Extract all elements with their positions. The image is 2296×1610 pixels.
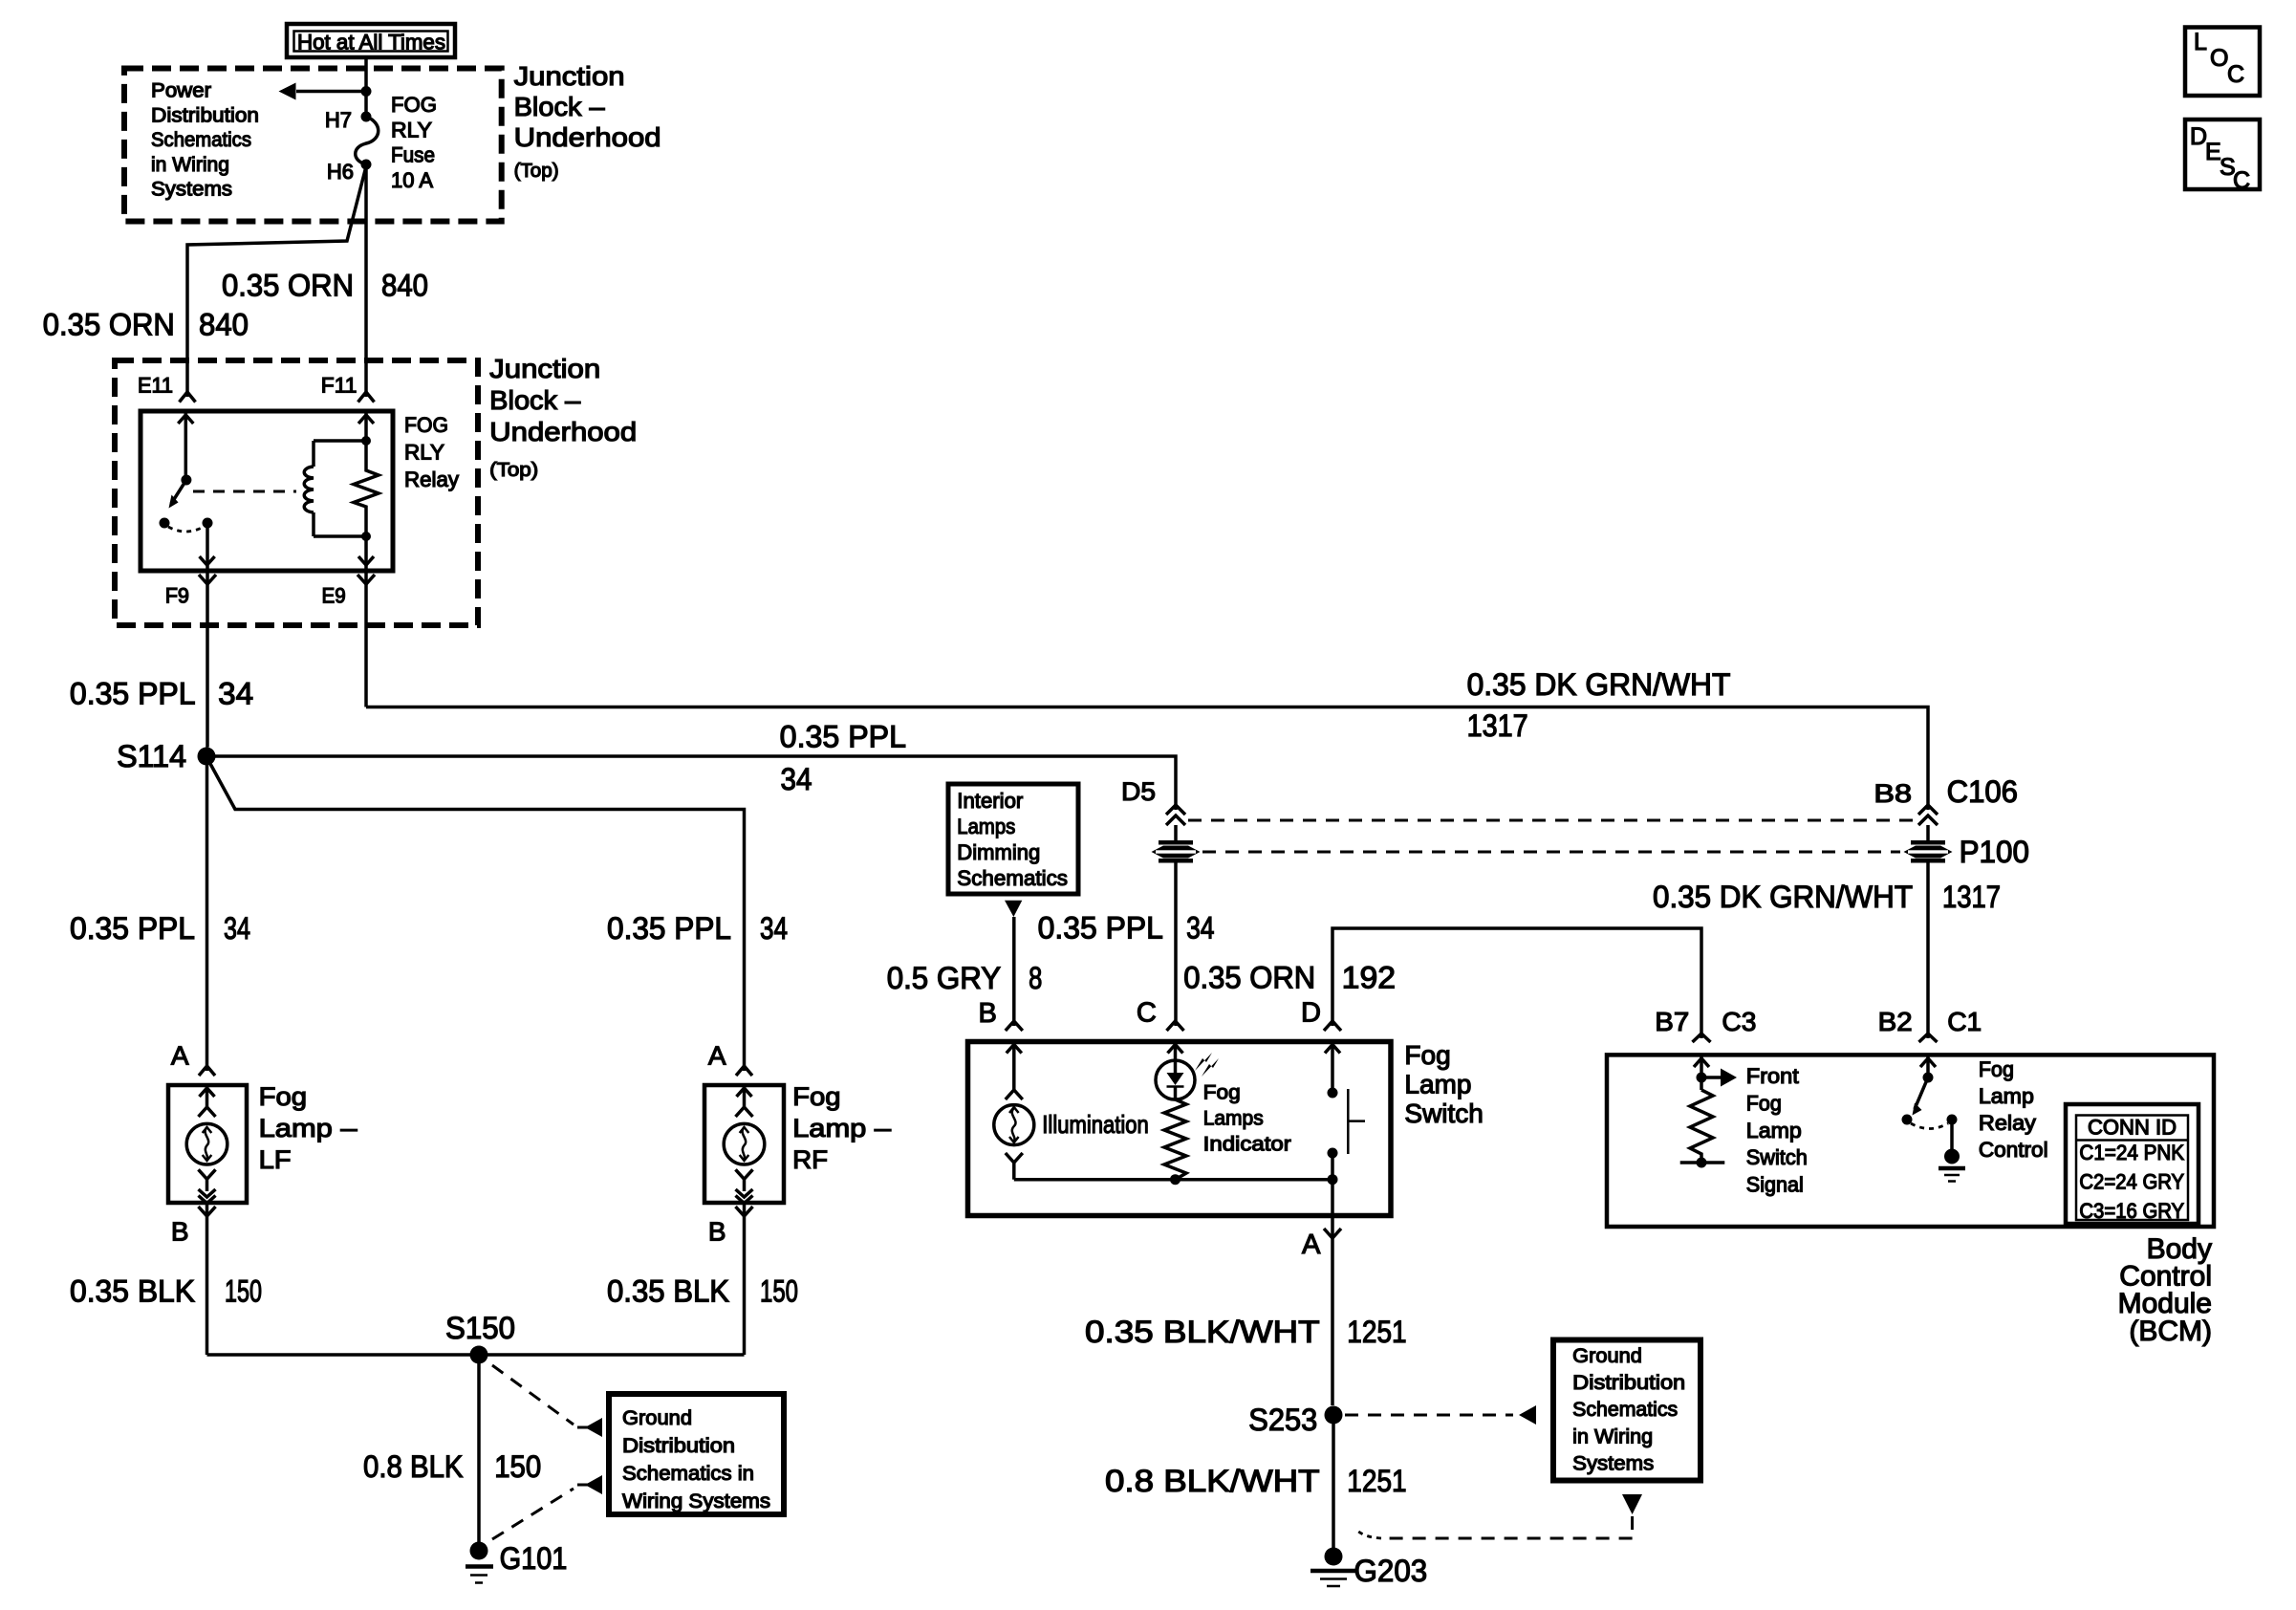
- svg-text:Lamp: Lamp: [1404, 1070, 1471, 1099]
- svg-text:0.35 PPL: 0.35 PPL: [70, 911, 195, 946]
- svg-text:S150: S150: [445, 1311, 515, 1345]
- svg-text:C3: C3: [1722, 1007, 1756, 1036]
- svg-text:Schematics: Schematics: [1572, 1399, 1678, 1421]
- svg-text:1251: 1251: [1347, 1464, 1406, 1498]
- svg-text:P100: P100: [1960, 835, 2029, 869]
- svg-text:0.35 ORN: 0.35 ORN: [222, 269, 354, 303]
- svg-text:Lamp –: Lamp –: [259, 1114, 357, 1142]
- svg-text:Lamps: Lamps: [1203, 1108, 1264, 1130]
- svg-text:Block –: Block –: [514, 92, 605, 121]
- svg-text:Fog: Fog: [1404, 1040, 1450, 1070]
- svg-text:B: B: [708, 1217, 726, 1247]
- svg-text:150: 150: [494, 1449, 541, 1484]
- svg-text:0.35 DK GRN/WHT: 0.35 DK GRN/WHT: [1653, 880, 1913, 914]
- svg-text:in Wiring: in Wiring: [1572, 1425, 1653, 1447]
- svg-text:Front: Front: [1746, 1064, 1799, 1088]
- svg-text:34: 34: [1186, 911, 1214, 946]
- svg-text:Signal: Signal: [1746, 1173, 1804, 1197]
- svg-text:Interior: Interior: [957, 789, 1023, 813]
- svg-text:(Top): (Top): [489, 460, 538, 481]
- svg-text:0.35 PPL: 0.35 PPL: [607, 911, 731, 946]
- svg-text:CONN ID: CONN ID: [2088, 1116, 2177, 1140]
- svg-text:A: A: [708, 1041, 726, 1071]
- svg-text:Indicator: Indicator: [1203, 1134, 1291, 1156]
- svg-text:Wiring Systems: Wiring Systems: [622, 1490, 770, 1512]
- svg-text:RLY: RLY: [391, 118, 432, 141]
- svg-text:0.8 BLK/WHT: 0.8 BLK/WHT: [1105, 1464, 1320, 1498]
- svg-text:C1: C1: [1947, 1007, 1982, 1036]
- svg-text:(BCM): (BCM): [2129, 1316, 2212, 1347]
- svg-text:Lamp –: Lamp –: [792, 1114, 891, 1142]
- svg-text:0.35 BLK: 0.35 BLK: [607, 1274, 729, 1309]
- svg-text:B7: B7: [1655, 1007, 1689, 1036]
- svg-text:8: 8: [1029, 961, 1042, 995]
- svg-text:RLY: RLY: [404, 441, 444, 465]
- svg-text:Fuse: Fuse: [391, 143, 435, 167]
- svg-text:C: C: [2227, 61, 2244, 88]
- svg-text:0.35 PPL: 0.35 PPL: [1038, 911, 1163, 946]
- svg-text:Block –: Block –: [489, 385, 580, 415]
- svg-text:FOG: FOG: [404, 413, 448, 437]
- svg-text:S253: S253: [1248, 1403, 1317, 1437]
- svg-text:150: 150: [225, 1274, 262, 1309]
- svg-text:Illumination: Illumination: [1042, 1110, 1149, 1139]
- svg-text:Lamp: Lamp: [1979, 1084, 2034, 1108]
- svg-text:Relay: Relay: [404, 468, 459, 491]
- svg-text:C106: C106: [1947, 774, 2018, 809]
- svg-text:C2=24 GRY: C2=24 GRY: [2079, 1170, 2184, 1194]
- svg-text:Schematics in: Schematics in: [622, 1463, 754, 1485]
- svg-text:B8: B8: [1874, 779, 1912, 808]
- svg-text:150: 150: [760, 1274, 798, 1309]
- svg-text:34: 34: [760, 911, 788, 946]
- svg-text:Lamp: Lamp: [1746, 1119, 1802, 1142]
- svg-text:34: 34: [218, 676, 253, 710]
- svg-text:0.35 ORN: 0.35 ORN: [43, 308, 175, 342]
- svg-text:840: 840: [199, 308, 249, 342]
- svg-text:FOG: FOG: [391, 93, 437, 117]
- svg-text:Fog: Fog: [1746, 1091, 1782, 1115]
- svg-text:Systems: Systems: [1572, 1452, 1654, 1474]
- svg-text:F9: F9: [165, 584, 189, 608]
- svg-text:B: B: [171, 1217, 189, 1247]
- svg-text:Underhood: Underhood: [514, 122, 661, 152]
- svg-text:0.35 PPL: 0.35 PPL: [780, 720, 906, 754]
- svg-text:E11: E11: [138, 374, 173, 398]
- svg-text:in Wiring: in Wiring: [151, 154, 229, 176]
- svg-text:H6: H6: [327, 160, 354, 184]
- svg-text:Fog: Fog: [1979, 1057, 2014, 1081]
- svg-text:G203: G203: [1354, 1554, 1428, 1588]
- svg-text:Fog: Fog: [259, 1082, 308, 1111]
- svg-text:C: C: [2233, 167, 2250, 194]
- svg-text:F11: F11: [321, 374, 357, 398]
- svg-text:Hot at All Times: Hot at All Times: [297, 31, 445, 54]
- svg-text:Junction: Junction: [489, 354, 600, 383]
- svg-text:0.35 ORN: 0.35 ORN: [1183, 961, 1315, 995]
- svg-text:1251: 1251: [1347, 1315, 1406, 1349]
- svg-text:Distribution: Distribution: [1572, 1372, 1685, 1394]
- svg-text:840: 840: [381, 269, 428, 303]
- svg-text:1317: 1317: [1467, 708, 1528, 743]
- svg-text:A: A: [171, 1041, 189, 1071]
- svg-text:L: L: [2194, 29, 2207, 55]
- svg-text:Fog: Fog: [792, 1082, 841, 1111]
- svg-text:0.5 GRY: 0.5 GRY: [887, 961, 1001, 995]
- svg-text:Junction: Junction: [514, 61, 625, 91]
- svg-text:0.35 BLK: 0.35 BLK: [70, 1274, 195, 1309]
- svg-text:Relay: Relay: [1979, 1111, 2036, 1135]
- svg-text:Distribution: Distribution: [622, 1435, 735, 1457]
- svg-text:Control: Control: [1979, 1138, 2048, 1162]
- svg-text:C: C: [1137, 998, 1157, 1029]
- svg-text:Fog: Fog: [1203, 1082, 1241, 1104]
- svg-text:C1=24 PNK: C1=24 PNK: [2079, 1141, 2184, 1164]
- svg-text:0.35 BLK/WHT: 0.35 BLK/WHT: [1085, 1315, 1320, 1349]
- svg-text:(Top): (Top): [514, 161, 559, 182]
- svg-text:Lamps: Lamps: [957, 815, 1015, 838]
- svg-text:Schematics: Schematics: [957, 866, 1068, 890]
- svg-text:O: O: [2210, 45, 2228, 72]
- svg-text:E9: E9: [322, 584, 346, 608]
- svg-text:0.35 PPL: 0.35 PPL: [70, 676, 196, 710]
- svg-text:RF: RF: [792, 1145, 828, 1174]
- svg-text:A: A: [1302, 1229, 1321, 1260]
- svg-text:S114: S114: [117, 739, 186, 773]
- svg-text:Systems: Systems: [151, 179, 232, 201]
- svg-text:D5: D5: [1121, 777, 1156, 806]
- svg-text:Schematics: Schematics: [151, 129, 251, 151]
- svg-text:B2: B2: [1878, 1007, 1913, 1036]
- svg-text:Switch: Switch: [1746, 1145, 1808, 1169]
- svg-text:Dimming: Dimming: [957, 840, 1040, 864]
- svg-text:1317: 1317: [1942, 880, 2001, 914]
- svg-text:34: 34: [781, 762, 812, 796]
- svg-text:D: D: [1301, 998, 1321, 1029]
- svg-text:Ground: Ground: [622, 1407, 692, 1429]
- svg-text:G101: G101: [500, 1541, 568, 1576]
- svg-text:Ground: Ground: [1572, 1345, 1642, 1367]
- svg-text:0.35 DK GRN/WHT: 0.35 DK GRN/WHT: [1467, 667, 1731, 702]
- svg-text:Distribution: Distribution: [151, 104, 259, 126]
- svg-text:C3=16 GRY: C3=16 GRY: [2079, 1199, 2184, 1223]
- svg-text:Switch: Switch: [1404, 1099, 1483, 1128]
- svg-text:LF: LF: [259, 1145, 292, 1174]
- svg-text:Underhood: Underhood: [489, 417, 637, 446]
- svg-text:192: 192: [1342, 961, 1396, 995]
- svg-text:Power: Power: [151, 80, 211, 102]
- svg-text:B: B: [978, 998, 996, 1029]
- svg-text:34: 34: [224, 911, 250, 946]
- svg-text:0.8 BLK: 0.8 BLK: [363, 1449, 464, 1484]
- svg-text:H7: H7: [325, 108, 352, 132]
- svg-text:10 A: 10 A: [391, 168, 433, 192]
